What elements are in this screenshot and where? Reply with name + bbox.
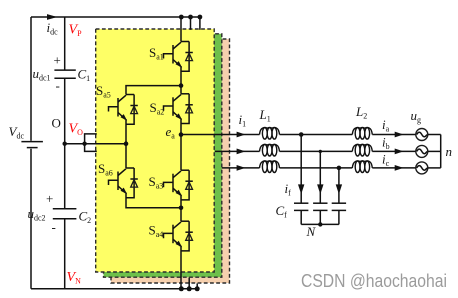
wire: neutral stub to phase-b module — [85, 134, 97, 144]
arrow i_1 on phase-a line — [237, 132, 246, 138]
node junction S_a1/S_a2/S_a5 — [179, 83, 184, 88]
node on bottom rail phase-c — [195, 286, 200, 291]
wire: S_a6 emitter to S_a3/S_a4 midpoint — [126, 193, 181, 208]
wire: S_a5 emitter to neutral bus — [125, 119, 127, 144]
wire: source-c to neutral rail — [428, 167, 441, 169]
phase-b module box (middle, green) — [104, 34, 222, 277]
battery V_dc positive plate — [21, 141, 43, 143]
wire: e_a down to S_a3 — [180, 135, 182, 171]
inductor L2 phase-a coil — [352, 127, 372, 139]
capacitor C_f phase-a bottom plate — [294, 209, 308, 211]
wire: C_f branch phase-c lower — [338, 210, 340, 224]
capacitor C_f phase-b top plate — [313, 202, 327, 204]
node junction of neutral stubs — [82, 142, 86, 146]
ac grid source phase-b — [416, 145, 428, 157]
arrow i_f on branch phase-b — [317, 184, 323, 194]
wire: S_a1 emitter to midpoint — [180, 66, 182, 86]
node tap phase-b to C_f — [319, 150, 322, 153]
wire: S_a4 collector feed — [180, 208, 182, 221]
svg-text:udc1: udc1 — [33, 66, 51, 82]
transistor S_a1 (IGBT with antiparallel diode) — [164, 42, 193, 72]
svg-text:+: + — [54, 53, 61, 68]
node N star point — [318, 222, 322, 226]
wire: phase-c output line — [222, 167, 416, 169]
transistor S_a3 — [164, 170, 193, 200]
node tap phase-c to C_f — [337, 166, 342, 171]
transistor S_a5 (clamp IGBT upper) — [109, 95, 138, 125]
wire: C_f branch phase-a lower — [300, 210, 302, 224]
arrow on phase-c line — [237, 165, 246, 171]
wire: C_f branch phase-b lower — [319, 210, 321, 224]
wire: top positive rail — [31, 16, 200, 18]
wire: clamp branch to S_a5 collector — [126, 86, 181, 95]
wire: S_a3 emitter to lower midpoint — [180, 195, 182, 208]
wire: neutral stub to phase-c module — [85, 144, 97, 152]
wire: phase-a output line — [181, 134, 416, 136]
arrow for current i_dc on top rail — [47, 14, 57, 20]
inductor L1 phase-c coil — [260, 161, 280, 173]
svg-text:-: - — [52, 220, 56, 235]
wire: bottom negative rail — [31, 288, 198, 290]
wire: S_a2 collector feed — [180, 86, 182, 94]
inductor L2 phase-b coil — [352, 144, 372, 156]
svg-text:udc2: udc2 — [28, 206, 46, 222]
wire: C_f branch phase-a upper — [300, 135, 302, 204]
capacitor C_f phase-a top plate — [294, 202, 308, 204]
arrow i_f on branch phase-a — [298, 184, 304, 194]
arrow i_f on branch phase-c — [336, 184, 342, 194]
watermark CSDN — [301, 271, 458, 292]
capacitor C2 top plate — [53, 208, 77, 210]
wire: S_a4 emitter down to bottom rail — [180, 246, 182, 289]
capacitor C_f phase-c top plate — [332, 202, 346, 204]
svg-text:C1: C1 — [78, 67, 91, 83]
transistor S_a4 — [164, 221, 193, 251]
transistor S_a6 (clamp IGBT lower) — [109, 168, 138, 198]
svg-text:idc: idc — [47, 20, 59, 36]
capacitor C1 top plate — [54, 69, 75, 71]
svg-text:Vdc: Vdc — [9, 124, 25, 140]
svg-text:C2: C2 — [79, 209, 92, 225]
wire: C_f branch phase-b upper — [319, 151, 321, 203]
svg-text:n: n — [446, 144, 453, 159]
wire: top rail stub to phase-c module — [199, 17, 201, 30]
phase-c module box (back, pink) — [111, 39, 230, 283]
wire: bottom rail stub from phase-c module — [196, 283, 198, 288]
wire: left rail upper (to battery) — [30, 17, 32, 141]
wire: dc-link rail bottom segment — [64, 219, 66, 289]
svg-text:if: if — [285, 181, 292, 197]
svg-text:+: + — [46, 191, 53, 206]
arrow on phase-b line — [237, 149, 246, 155]
ac grid source phase-a — [416, 129, 428, 141]
node on top rail feeding phase-c leg — [198, 15, 203, 20]
wire: source-a to neutral rail — [428, 134, 441, 136]
svg-text:L1: L1 — [259, 107, 271, 123]
wire: S_a2 emitter to output node e_a — [180, 118, 182, 134]
wire: neutral O bus — [65, 143, 126, 145]
svg-text:ib: ib — [382, 135, 390, 151]
wire: bottom rail stub from phase-b module — [188, 278, 190, 289]
phase-a module box (front, yellow) — [96, 29, 215, 272]
wire: S_a6 collector feed from neutral — [125, 144, 127, 168]
svg-text:-: - — [56, 78, 60, 93]
inductor L1 phase-a coil — [260, 127, 280, 139]
wire: C_f branch phase-c upper — [338, 168, 340, 203]
svg-text:VN: VN — [67, 270, 82, 285]
node on bottom rail phase-b — [187, 286, 192, 291]
wire: dc-link rail top segment — [64, 17, 66, 70]
node on top rail feeding phase-b leg — [188, 15, 193, 20]
capacitor C_f phase-c bottom plate — [332, 209, 346, 211]
inductor L1 phase-b coil — [260, 144, 280, 156]
wire: grid neutral rail n — [440, 135, 442, 168]
wire: top rail stub to phase-b module — [190, 17, 192, 30]
svg-text:VO: VO — [69, 122, 84, 137]
transistor S_a2 — [164, 94, 193, 124]
svg-text:O: O — [52, 116, 61, 131]
svg-text:ia: ia — [382, 117, 390, 133]
node on top rail feeding phase-a leg — [179, 15, 184, 20]
capacitor C1 bottom plate — [54, 77, 75, 79]
wire: left rail lower — [30, 149, 32, 289]
arrow i_c — [395, 165, 404, 171]
svg-text:ic: ic — [382, 152, 390, 168]
capacitor C2 bottom plate — [53, 218, 77, 220]
arrow i_a — [395, 132, 404, 138]
node junction S_a3/S_a4/S_a6 — [179, 206, 184, 211]
node on bottom rail phase-a — [179, 286, 184, 291]
wire: source-b to neutral rail — [428, 150, 441, 152]
node tap phase-a to C_f — [299, 132, 304, 137]
ac grid source phase-c — [416, 162, 428, 174]
capacitor C_f phase-b bottom plate — [313, 209, 327, 211]
svg-text:i1: i1 — [239, 112, 247, 128]
svg-text:L2: L2 — [355, 104, 367, 120]
wire: collector feed of S_a1 from top rail — [180, 17, 182, 42]
node on dc-link rail at O — [62, 142, 66, 146]
svg-text:Cf: Cf — [276, 203, 288, 219]
svg-text:ug: ug — [411, 108, 422, 124]
inductor L2 phase-c coil — [352, 161, 372, 173]
svg-text:N: N — [306, 224, 317, 239]
node e_a output junction — [179, 132, 184, 137]
wire: phase-b output line — [215, 150, 416, 152]
wire: C_f star bus — [301, 223, 339, 225]
node S_a5/S_a6 neutral junction — [124, 141, 129, 146]
wire: dc-link rail middle segment — [64, 78, 66, 209]
svg-text:VP: VP — [69, 23, 83, 38]
arrow i_b — [395, 149, 404, 155]
battery V_dc negative plate — [27, 147, 38, 149]
